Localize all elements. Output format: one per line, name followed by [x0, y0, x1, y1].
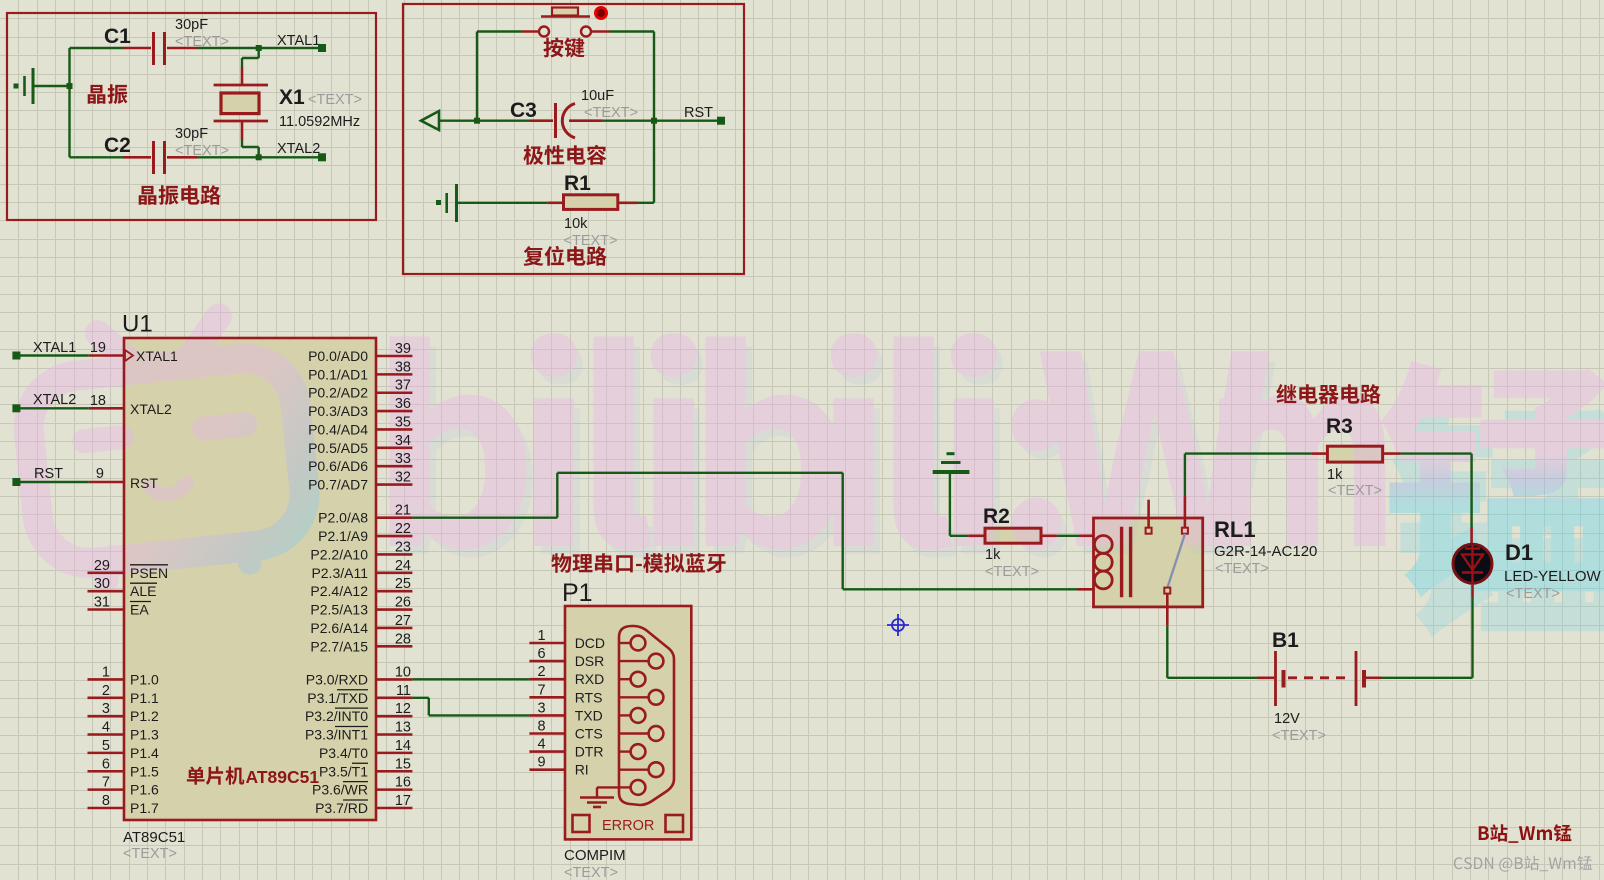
capacitor C1 30pF	[70, 32, 198, 65]
wire XTAL1 terminal to U1 pin 19	[16, 340, 124, 356]
title 物理串口-模拟蓝牙	[551, 553, 725, 573]
value 1k (R3)	[1327, 467, 1382, 499]
value LED-YELLOW	[1504, 568, 1602, 602]
svg-text:7: 7	[538, 682, 546, 698]
svg-text:8: 8	[538, 719, 546, 735]
wire button right vertical	[609, 32, 657, 124]
wire relay pole to battery B1	[1167, 625, 1274, 678]
title 晶振电路	[139, 185, 221, 205]
svg-text:ALE: ALE	[130, 583, 156, 599]
capacitor C2 30pF	[70, 141, 198, 174]
pin 13 P3.3/INT1 (U1)	[305, 720, 412, 743]
pin 2 P1.1 (U1)	[88, 683, 160, 706]
svg-text:26: 26	[395, 595, 411, 611]
svg-text:7: 7	[102, 775, 110, 791]
button actuator marker (red circle)	[596, 8, 607, 19]
svg-text:P1.4: P1.4	[130, 745, 159, 761]
svg-text:P2.5/A13: P2.5/A13	[310, 602, 368, 618]
svg-text:P3.3/INT1: P3.3/INT1	[305, 727, 368, 743]
svg-text:31: 31	[94, 595, 110, 611]
svg-text:P1.0: P1.0	[130, 671, 159, 687]
svg-text:24: 24	[395, 558, 411, 574]
value 30pF (C2)	[175, 126, 229, 159]
svg-text:P0.7/AD7: P0.7/AD7	[308, 477, 368, 493]
svg-text:<TEXT>: <TEXT>	[985, 564, 1039, 580]
label C2	[104, 134, 131, 157]
svg-text:RI: RI	[575, 762, 589, 778]
pin 28 P2.7/A15 (U1)	[310, 631, 412, 654]
svg-text:1k: 1k	[1327, 467, 1343, 483]
pin 10 P3.0/RXD (U1)	[306, 664, 413, 687]
wire crystal bottom to XTAL2 row	[242, 121, 259, 157]
svg-text:P1.1: P1.1	[130, 690, 159, 706]
value 12V	[1272, 711, 1326, 744]
svg-text:P0.6/AD6: P0.6/AD6	[308, 458, 368, 474]
svg-text:39: 39	[395, 341, 411, 357]
svg-text:13: 13	[395, 720, 411, 736]
title 晶振	[88, 84, 128, 104]
pin 36 P0.3/AD3 (U1)	[308, 396, 412, 419]
pin 7 P1.6 (U1)	[88, 775, 160, 798]
svg-text:C3: C3	[510, 99, 537, 122]
LED D1 LED-YELLOW	[1453, 544, 1492, 583]
svg-text:PSEN: PSEN	[130, 565, 168, 581]
pin 6 P1.5 (U1)	[88, 756, 160, 779]
node XTAL2 (crystal box)	[277, 141, 326, 161]
pin 37 P0.2/AD2 (U1)	[308, 378, 412, 401]
svg-text:11.0592MHz: 11.0592MHz	[279, 114, 360, 130]
ground (P1 DB9 shell)	[580, 787, 619, 807]
svg-text:B1: B1	[1272, 629, 1299, 652]
svg-text:P1.2: P1.2	[130, 708, 159, 724]
wire U1 P3.1/TXD to P1 TXD	[412, 698, 529, 716]
svg-text:AT89C51: AT89C51	[246, 767, 320, 787]
svg-text:34: 34	[395, 433, 411, 449]
svg-text:R3: R3	[1326, 415, 1353, 438]
title 复位电路	[524, 246, 607, 266]
svg-text:XTAL1: XTAL1	[277, 33, 320, 49]
svg-text:2: 2	[538, 664, 546, 680]
svg-text:<TEXT>: <TEXT>	[584, 105, 638, 121]
svg-text:11: 11	[396, 683, 411, 699]
wire XTAL2 terminal to U1 pin 18	[16, 393, 124, 409]
capacitor C3 10uF (polarized)	[477, 103, 654, 138]
svg-text:1: 1	[102, 664, 110, 680]
wire button left to C3 row	[474, 32, 521, 124]
svg-text:P3.2/INT0: P3.2/INT0	[305, 708, 368, 724]
pin 38 P0.1/AD1 (U1)	[308, 359, 412, 382]
pin 26 P2.5/A13 (U1)	[310, 595, 412, 618]
svg-text:XTAL2: XTAL2	[130, 401, 172, 417]
pin 24 P2.3/A11 (U1)	[311, 558, 412, 581]
svg-text:RXD: RXD	[575, 671, 605, 687]
svg-text:RST: RST	[130, 475, 158, 491]
label R2	[983, 505, 1010, 528]
svg-text:XTAL2: XTAL2	[277, 141, 320, 157]
resistor R3 1k	[1327, 446, 1400, 462]
svg-text:15: 15	[395, 756, 411, 772]
svg-text:COMPIM: COMPIM	[564, 847, 626, 864]
svg-text:18: 18	[90, 393, 106, 409]
label X1	[279, 86, 362, 130]
pin 11 P3.1/TXD (U1)	[307, 683, 412, 706]
push button 按键	[521, 8, 609, 37]
title 继电器电路	[1276, 384, 1380, 404]
pin 27 P2.6/A14 (U1)	[310, 613, 412, 636]
svg-text:12V: 12V	[1274, 711, 1300, 727]
svg-text:12: 12	[395, 701, 411, 717]
svg-text:P2.6/A14: P2.6/A14	[310, 620, 368, 636]
pin 14 P3.4/T0 (U1)	[319, 738, 412, 761]
value 10uF	[581, 88, 638, 121]
pin 32 P0.7/AD7 (U1)	[308, 470, 412, 493]
svg-text:1k: 1k	[985, 547, 1001, 563]
connector P1 COMPIM body	[565, 606, 691, 839]
pin 5 P1.4 (U1)	[88, 738, 160, 761]
wire C1 to XTAL1 terminal	[197, 45, 322, 51]
wire R3 to LED D1	[1401, 454, 1472, 543]
svg-text:<TEXT>: <TEXT>	[564, 233, 618, 249]
label 按键	[543, 38, 584, 58]
svg-text:<TEXT>: <TEXT>	[123, 846, 177, 862]
title 单片机AT89C51	[187, 766, 319, 787]
pin 4 DTR (P1)	[529, 737, 603, 760]
svg-text:37: 37	[395, 378, 411, 394]
svg-text:P3.4/T0: P3.4/T0	[319, 745, 368, 761]
svg-text:29: 29	[94, 558, 110, 574]
svg-text:4: 4	[102, 720, 110, 736]
pin 30 ALE (U1)	[88, 576, 158, 599]
value 30pF (C1)	[175, 17, 229, 50]
svg-text:21: 21	[395, 503, 411, 519]
pin 25 P2.4/A12 (U1)	[310, 576, 412, 599]
svg-text:P2.4/A12: P2.4/A12	[310, 583, 368, 599]
watermark text B站_Wm锰	[1479, 824, 1572, 843]
pin 17 P3.7/RD (U1)	[315, 793, 412, 816]
svg-text:5: 5	[102, 738, 110, 754]
svg-text:P2.1/A9: P2.1/A9	[318, 528, 368, 544]
resistor R1 10k	[457, 121, 655, 210]
pin 19 XTAL1 (U1)	[125, 348, 178, 364]
svg-text:10k: 10k	[564, 216, 588, 232]
power terminal (arrow)	[421, 111, 477, 130]
svg-text:DCD: DCD	[575, 635, 605, 651]
svg-text:P3.7/RD: P3.7/RD	[315, 800, 368, 816]
pin 31 EA (U1)	[88, 595, 152, 618]
relay RL1 G2R-14-AC120	[1094, 496, 1203, 625]
svg-text:10: 10	[395, 664, 411, 680]
svg-text:RST: RST	[684, 105, 713, 121]
svg-text:AT89C51: AT89C51	[123, 829, 185, 846]
label RL1	[1214, 517, 1256, 542]
svg-text:P2.7/A15: P2.7/A15	[310, 638, 368, 654]
svg-text:DTR: DTR	[575, 744, 604, 760]
svg-text:P0.1/AD1: P0.1/AD1	[308, 366, 368, 382]
svg-text:R2: R2	[983, 505, 1010, 528]
label D1	[1505, 540, 1533, 565]
svg-text:28: 28	[395, 631, 411, 647]
svg-text:<TEXT>: <TEXT>	[1272, 728, 1326, 744]
svg-text:P3.0/RXD: P3.0/RXD	[306, 671, 368, 687]
svg-text:30pF: 30pF	[175, 17, 208, 33]
label C1	[104, 25, 131, 48]
pin 9 RST (U1)	[130, 475, 158, 491]
svg-text:P3.5/T1: P3.5/T1	[319, 763, 368, 779]
pin 3 TXD (P1)	[529, 700, 602, 723]
pin 12 P3.2/INT0 (U1)	[305, 701, 412, 724]
label B1	[1272, 629, 1299, 652]
svg-text:ERROR: ERROR	[602, 818, 654, 834]
svg-text:C2: C2	[104, 134, 131, 157]
wire ground to C1/C2 junction	[33, 48, 73, 157]
svg-text:9: 9	[96, 466, 104, 482]
svg-text:X1: X1	[279, 86, 305, 109]
svg-text:3: 3	[538, 700, 546, 716]
svg-text:P2.3/A11: P2.3/A11	[311, 565, 368, 581]
label R1	[564, 172, 591, 195]
svg-text:38: 38	[395, 359, 411, 375]
svg-text:10uF: 10uF	[581, 88, 614, 104]
svg-text:19: 19	[90, 340, 106, 356]
terminal XTAL2	[12, 392, 76, 412]
label U1	[122, 311, 153, 338]
svg-text:36: 36	[395, 396, 411, 412]
pin 22 P2.1/A9 (U1)	[318, 521, 412, 544]
svg-text:<TEXT>: <TEXT>	[564, 865, 618, 880]
label C3	[510, 99, 537, 122]
pin 33 P0.6/AD6 (U1)	[308, 451, 412, 474]
svg-text:P1.3: P1.3	[130, 727, 159, 743]
svg-text:4: 4	[538, 737, 546, 753]
svg-text:22: 22	[395, 521, 411, 537]
wire ground to R2	[950, 474, 985, 536]
svg-text:P0.5/AD5: P0.5/AD5	[308, 440, 368, 456]
subcircuit frame: crystal oscillator 晶振电路	[7, 13, 376, 220]
svg-text:P0.3/AD3: P0.3/AD3	[308, 403, 368, 419]
terminal XTAL1	[12, 340, 76, 360]
terminal RST	[12, 466, 63, 486]
svg-text:P1: P1	[562, 579, 593, 607]
svg-text:XTAL1: XTAL1	[33, 340, 76, 356]
value AT89C51	[123, 829, 185, 862]
pin 18 XTAL2 (U1)	[130, 401, 172, 417]
svg-text:35: 35	[395, 414, 411, 430]
svg-text:P1.6: P1.6	[130, 782, 159, 798]
svg-text:8: 8	[102, 793, 110, 809]
svg-text:EA: EA	[130, 602, 149, 618]
svg-text:P1.7: P1.7	[130, 800, 159, 816]
svg-text:XTAL1: XTAL1	[136, 348, 178, 364]
pin 1 P1.0 (U1)	[88, 664, 160, 687]
svg-text:D1: D1	[1505, 540, 1533, 565]
svg-text:9: 9	[538, 755, 546, 771]
ground (reset circuit)	[436, 184, 457, 222]
svg-text:2: 2	[102, 683, 110, 699]
svg-text:<TEXT>: <TEXT>	[1215, 561, 1269, 577]
wire U1 P3.0/RXD to P1 RXD	[412, 678, 529, 680]
svg-text:30: 30	[94, 576, 110, 592]
svg-text:P1.5: P1.5	[130, 763, 159, 779]
op-amp:none / IC U1 AT89C51 body	[124, 338, 376, 820]
svg-text:P3.1/TXD: P3.1/TXD	[307, 690, 368, 706]
svg-text:CTS: CTS	[575, 726, 603, 742]
pin 21 P2.0/A8 (U1)	[318, 503, 412, 526]
svg-text:30pF: 30pF	[175, 126, 208, 142]
ERROR indicator (P1)	[573, 815, 684, 834]
svg-text:32: 32	[395, 470, 411, 486]
svg-text:17: 17	[395, 793, 411, 809]
svg-text:<TEXT>: <TEXT>	[1328, 483, 1382, 499]
pin 1 DCD (P1)	[529, 628, 605, 651]
pin 4 P1.3 (U1)	[88, 720, 160, 743]
title 极性电容	[523, 145, 606, 165]
pin 16 P3.6/WR (U1)	[312, 775, 412, 798]
pin 3 P1.2 (U1)	[88, 701, 160, 724]
watermark text CSDN @B站_Wm锰	[1454, 856, 1592, 872]
svg-text:TXD: TXD	[575, 707, 603, 723]
pin 8 P1.7 (U1)	[88, 793, 160, 816]
label R3	[1326, 415, 1353, 438]
svg-text:XTAL2: XTAL2	[33, 392, 76, 408]
svg-text:P0.2/AD2: P0.2/AD2	[308, 385, 368, 401]
svg-text:27: 27	[395, 613, 411, 629]
svg-text:6: 6	[538, 646, 546, 662]
svg-text:P0.0/AD0: P0.0/AD0	[308, 348, 368, 364]
svg-text:U1: U1	[122, 311, 153, 338]
pin 23 P2.2/A10 (U1)	[310, 539, 412, 562]
node XTAL1 (crystal box)	[277, 33, 326, 52]
wire U1 P2.0/A8 to relay coil (net)	[412, 473, 1093, 590]
node RST (reset box)	[654, 105, 725, 125]
wire battery to LED D1 cathode	[1381, 584, 1473, 678]
svg-text:P0.4/AD4: P0.4/AD4	[308, 421, 368, 437]
pin 39 P0.0/AD0 (U1)	[308, 341, 412, 364]
pin 7 RTS (P1)	[529, 682, 602, 705]
pin 8 CTS (P1)	[529, 719, 602, 742]
DB9 connector face (P1)	[619, 626, 674, 805]
svg-text:<TEXT>: <TEXT>	[308, 92, 362, 108]
wire relay to R3	[1185, 454, 1328, 496]
value COMPIM	[564, 847, 626, 880]
svg-text:33: 33	[395, 451, 411, 467]
pin 15 P3.5/T1 (U1)	[319, 756, 412, 779]
svg-text:P2.2/A10: P2.2/A10	[310, 546, 368, 562]
ground (relay circuit)	[933, 454, 970, 472]
battery B1 12V	[1276, 651, 1382, 706]
svg-text:3: 3	[102, 701, 110, 717]
wire C2 to XTAL2 terminal	[197, 154, 322, 160]
svg-text:R1: R1	[564, 172, 591, 195]
svg-text:16: 16	[395, 775, 411, 791]
svg-text:DSR: DSR	[575, 653, 605, 669]
pin 29 PSEN (U1)	[88, 558, 169, 581]
pin 9 RI (P1)	[529, 755, 588, 778]
svg-text:1: 1	[538, 628, 546, 644]
svg-text:25: 25	[395, 576, 411, 592]
origin marker (blue crosshair)	[887, 614, 909, 636]
crystal X1 11.0592MHz	[214, 85, 268, 121]
wire RST terminal to U1 pin 9	[16, 466, 124, 482]
svg-text:RTS: RTS	[575, 689, 603, 705]
svg-text:LED-YELLOW: LED-YELLOW	[1504, 568, 1602, 585]
svg-text:<TEXT>: <TEXT>	[1506, 586, 1560, 602]
label P1	[562, 579, 593, 607]
value G2R-14-AC120	[1214, 543, 1317, 577]
svg-text:23: 23	[395, 539, 411, 555]
svg-text:G2R-14-AC120: G2R-14-AC120	[1214, 543, 1317, 560]
svg-text:RST: RST	[34, 466, 63, 482]
svg-text:6: 6	[102, 756, 110, 772]
svg-text:C1: C1	[104, 25, 131, 48]
pin 34 P0.5/AD5 (U1)	[308, 433, 412, 456]
wire junction to crystal top	[242, 48, 259, 85]
svg-text:P2.0/A8: P2.0/A8	[318, 510, 368, 526]
value 1k (R2)	[985, 547, 1039, 580]
svg-text:14: 14	[395, 738, 411, 754]
ground (crystal circuit)	[14, 68, 34, 104]
svg-text:RL1: RL1	[1214, 517, 1256, 542]
pin 2 RXD (P1)	[529, 664, 604, 687]
value 10k	[564, 216, 618, 249]
svg-text:P3.6/WR: P3.6/WR	[312, 782, 368, 798]
subcircuit frame: reset circuit 复位电路	[403, 4, 744, 274]
pin 35 P0.4/AD4 (U1)	[308, 414, 412, 437]
resistor R2 1k	[985, 528, 1094, 543]
pin 6 DSR (P1)	[529, 646, 604, 669]
